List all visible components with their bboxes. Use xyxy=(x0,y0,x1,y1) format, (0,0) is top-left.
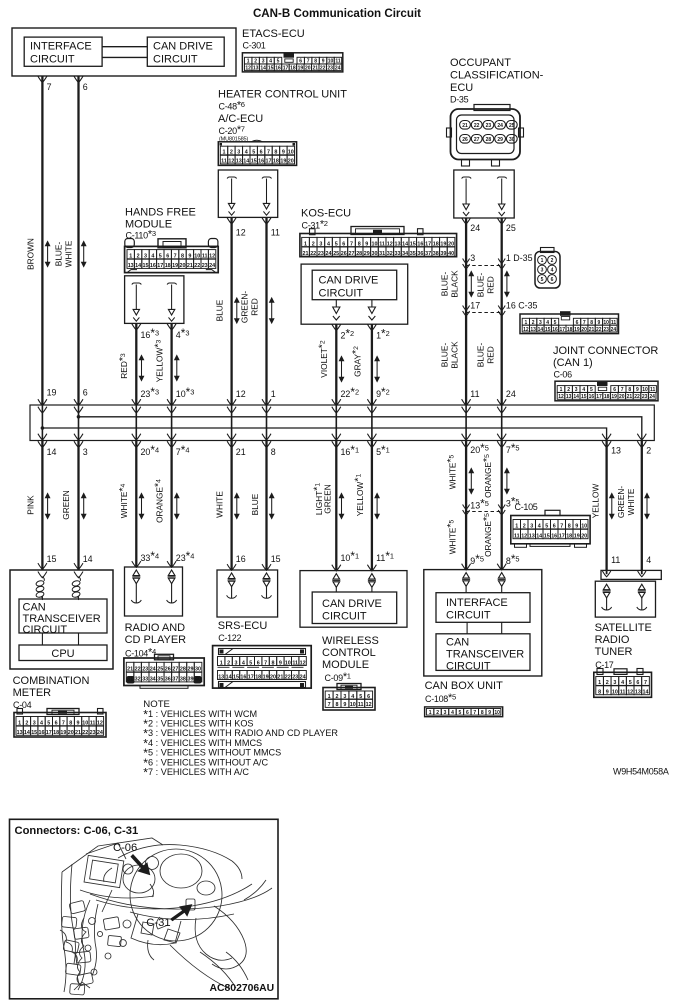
svg-text:20: 20 xyxy=(288,159,294,165)
arrow red xyxy=(139,356,143,381)
svg-text:12: 12 xyxy=(387,241,393,247)
svg-text:3: 3 xyxy=(319,241,322,247)
terminal KOS pin1 xyxy=(371,300,373,307)
svg-text:18: 18 xyxy=(255,674,261,680)
svg-text:13: 13 xyxy=(611,446,621,456)
svg-text:19: 19 xyxy=(440,241,446,247)
svg-text:16: 16 xyxy=(150,263,156,269)
svg-text:5: 5 xyxy=(249,660,252,666)
wire VIOLET kos-2 to bus xyxy=(335,324,337,405)
svg-text:14: 14 xyxy=(538,327,544,333)
terminal meter pin14 xyxy=(74,572,83,578)
svg-text:6: 6 xyxy=(55,721,58,727)
svg-text:5: 5 xyxy=(47,721,50,727)
svg-text:GREEN: GREEN xyxy=(61,490,71,520)
junction fork etacs pin6 xyxy=(74,76,83,82)
svg-text:28: 28 xyxy=(180,667,186,673)
arrow green-red xyxy=(270,298,274,323)
svg-text:5: 5 xyxy=(545,524,548,530)
svg-text:15: 15 xyxy=(31,730,37,736)
svg-text:18: 18 xyxy=(53,730,59,736)
svg-text:CAN BOX UNIT: CAN BOX UNIT xyxy=(425,680,504,692)
svg-text:22: 22 xyxy=(634,394,640,400)
wire YELLOW hfm-4 to bus xyxy=(170,324,172,405)
svg-text:24: 24 xyxy=(150,667,156,673)
wire GREEN-RED heater-11 to bus xyxy=(265,218,267,405)
svg-text:2: 2 xyxy=(25,721,28,727)
svg-text:13: 13 xyxy=(17,730,23,736)
svg-text:22: 22 xyxy=(596,327,602,333)
svg-text:24: 24 xyxy=(97,730,103,736)
terminal srs pin15 xyxy=(263,573,270,579)
svg-text:3: 3 xyxy=(470,253,475,263)
svg-text:19: 19 xyxy=(60,730,66,736)
svg-text:19: 19 xyxy=(280,159,286,165)
svg-text:CONTROL: CONTROL xyxy=(322,647,376,659)
arrow green-white xyxy=(645,494,649,519)
connector C-48 / C-20 xyxy=(218,142,296,166)
svg-text:2: 2 xyxy=(436,710,439,716)
svg-text:24: 24 xyxy=(209,263,215,269)
svg-text:6: 6 xyxy=(83,82,88,92)
wire BLUE-BLACK occupant-24 to bus xyxy=(465,218,467,405)
svg-text:35: 35 xyxy=(157,677,163,683)
wire meter transceiver to cpu links xyxy=(41,633,43,645)
svg-text:SRS-ECU: SRS-ECU xyxy=(218,620,268,632)
svg-text:4: 4 xyxy=(242,660,245,666)
CAN transceiver circuit block canbox xyxy=(436,634,530,671)
svg-text:29: 29 xyxy=(364,251,370,257)
svg-text:ECU: ECU xyxy=(450,82,473,94)
svg-text:4: 4 xyxy=(621,680,624,686)
CAN drive circuit block U-KOS xyxy=(312,270,397,300)
wire canbox interface-transceiver links xyxy=(466,622,468,634)
svg-text:CIRCUIT: CIRCUIT xyxy=(319,288,364,300)
svg-text:8: 8 xyxy=(598,690,601,696)
junction fork kos pin2 xyxy=(332,324,341,330)
terminal canbox pin9 xyxy=(463,573,470,579)
svg-text:26: 26 xyxy=(165,667,171,673)
svg-text:7: 7 xyxy=(47,82,52,92)
wire GRAY kos-1 to bus xyxy=(371,324,373,405)
svg-text:16: 16 xyxy=(236,554,246,564)
svg-text:8: 8 xyxy=(69,721,72,727)
svg-text:18: 18 xyxy=(433,241,439,247)
svg-text:22: 22 xyxy=(194,263,200,269)
svg-text:13: 13 xyxy=(529,534,535,540)
svg-text:CIRCUIT: CIRCUIT xyxy=(446,660,491,672)
arrow orange5 xyxy=(505,469,509,494)
svg-text:16: 16 xyxy=(258,159,264,165)
arrow yellow xyxy=(175,356,179,381)
svg-text:35: 35 xyxy=(410,251,416,257)
svg-text:17: 17 xyxy=(559,534,565,540)
svg-text:38: 38 xyxy=(433,251,439,257)
svg-text:6: 6 xyxy=(257,660,260,666)
terminal wcm pin11 xyxy=(369,574,376,580)
svg-text:5: 5 xyxy=(459,710,462,716)
wire WHITE bus to srs16 xyxy=(230,441,232,571)
svg-text:TRANSCEIVER: TRANSCEIVER xyxy=(23,613,101,625)
svg-text:4: 4 xyxy=(451,710,454,716)
connector C-108 xyxy=(425,707,503,717)
terminal radio pin33 xyxy=(133,570,140,576)
svg-text:BLUE-: BLUE- xyxy=(476,343,486,368)
svg-text:15: 15 xyxy=(143,263,149,269)
svg-text:29: 29 xyxy=(188,667,194,673)
CAN transceiver circuit block meter xyxy=(19,599,107,633)
svg-text:20: 20 xyxy=(68,730,74,736)
terminal sat pin4 xyxy=(639,584,646,590)
terminal fork sat4 xyxy=(641,570,643,574)
svg-text:CAN DRIVE: CAN DRIVE xyxy=(322,598,382,610)
bus crossing wire x=336.3 xyxy=(335,405,337,441)
svg-text:14: 14 xyxy=(402,241,408,247)
svg-text:7: 7 xyxy=(328,702,331,708)
svg-text:(CAN 1): (CAN 1) xyxy=(553,357,593,369)
svg-text:INTERFACE: INTERFACE xyxy=(446,597,508,609)
svg-text:10: 10 xyxy=(494,710,500,716)
svg-text:1 D-35: 1 D-35 xyxy=(506,253,533,263)
svg-text:11: 11 xyxy=(379,241,385,247)
svg-text:12: 12 xyxy=(558,394,564,400)
svg-text:1: 1 xyxy=(515,524,518,530)
svg-text:6: 6 xyxy=(553,524,556,530)
svg-text:20: 20 xyxy=(448,241,454,247)
svg-text:8: 8 xyxy=(274,150,277,156)
wire YELLOW bus to wcm11 xyxy=(371,441,373,571)
connector bracket satellite xyxy=(601,570,661,579)
CAN drive circuit block U-WCM xyxy=(312,592,397,624)
svg-text:18: 18 xyxy=(604,394,610,400)
svg-text:11: 11 xyxy=(514,534,520,540)
svg-text:ETACS-ECU: ETACS-ECU xyxy=(242,28,305,40)
svg-text:12: 12 xyxy=(236,228,246,238)
svg-text:9: 9 xyxy=(282,150,285,156)
svg-text:9: 9 xyxy=(279,660,282,666)
svg-text:1: 1 xyxy=(18,721,21,727)
svg-text:7: 7 xyxy=(644,680,647,686)
svg-text:12: 12 xyxy=(236,389,246,399)
svg-text:12: 12 xyxy=(97,721,103,727)
svg-text:HANDS FREE: HANDS FREE xyxy=(125,207,196,219)
svg-text:39: 39 xyxy=(440,251,446,257)
wire BLUE bus to srs15 xyxy=(265,441,267,571)
svg-text:PINK: PINK xyxy=(26,495,36,515)
terminal meter pin15 xyxy=(38,572,47,578)
connector D-35 inline icon xyxy=(541,248,555,253)
terminal HFM pin4 xyxy=(167,283,177,285)
ECU box RADIO AND CD PLAYER xyxy=(125,567,183,616)
svg-text:24: 24 xyxy=(506,389,516,399)
svg-text:9: 9 xyxy=(343,702,346,708)
svg-text:21: 21 xyxy=(127,667,133,673)
wire interface to can-drive link xyxy=(102,46,147,48)
svg-text:24: 24 xyxy=(335,65,341,71)
connector C-09 xyxy=(337,684,361,690)
svg-text:1: 1 xyxy=(129,254,132,260)
svg-text:C-301: C-301 xyxy=(243,41,266,51)
arrow lgreen xyxy=(339,494,343,519)
svg-text:10: 10 xyxy=(372,241,378,247)
svg-text:14: 14 xyxy=(643,690,649,696)
svg-text:25: 25 xyxy=(333,251,339,257)
svg-text:14: 14 xyxy=(24,730,30,736)
wire BROWN etacs-7 to bus xyxy=(41,76,43,405)
svg-text:25: 25 xyxy=(157,667,163,673)
svg-text:5: 5 xyxy=(252,150,255,156)
svg-text:BROWN: BROWN xyxy=(26,238,36,270)
svg-text:13: 13 xyxy=(635,690,641,696)
ECU box WIRELESS CONTROL MODULE xyxy=(300,571,407,628)
svg-text:6: 6 xyxy=(636,680,639,686)
svg-text:15: 15 xyxy=(233,674,239,680)
svg-text:11: 11 xyxy=(358,702,364,708)
svg-text:15: 15 xyxy=(545,327,551,333)
wire GREEN-WHITE bus to sat4 xyxy=(641,441,643,571)
svg-text:7: 7 xyxy=(62,721,65,727)
svg-text:CAN DRIVE: CAN DRIVE xyxy=(153,41,213,53)
svg-text:16: 16 xyxy=(39,730,45,736)
svg-text:9: 9 xyxy=(188,254,191,260)
svg-text:3: 3 xyxy=(235,660,238,666)
svg-text:5: 5 xyxy=(159,254,162,260)
svg-text:22: 22 xyxy=(320,65,326,71)
svg-text:1: 1 xyxy=(271,389,276,399)
svg-text:23: 23 xyxy=(642,394,648,400)
svg-text:3: 3 xyxy=(33,721,36,727)
svg-text:4: 4 xyxy=(351,694,354,700)
svg-text:RED: RED xyxy=(250,298,260,316)
connector C-122 xyxy=(213,646,312,689)
connector D-35 housing xyxy=(474,105,510,111)
svg-text:CAN: CAN xyxy=(23,602,46,614)
svg-text:GRAY*2: GRAY*2 xyxy=(350,346,362,377)
junction dot wire1 lower bus xyxy=(41,426,45,430)
svg-text:26: 26 xyxy=(341,251,347,257)
svg-text:2: 2 xyxy=(551,258,554,264)
svg-text:3: 3 xyxy=(613,680,616,686)
svg-text:WHITE*5: WHITE*5 xyxy=(445,454,457,489)
svg-text:17: 17 xyxy=(157,263,163,269)
svg-text:23: 23 xyxy=(142,667,148,673)
svg-text:17: 17 xyxy=(266,159,272,165)
svg-text:JOINT CONNECTOR: JOINT CONNECTOR xyxy=(553,345,658,357)
svg-text:20: 20 xyxy=(180,263,186,269)
svg-text:5: 5 xyxy=(541,277,544,283)
svg-text:2: 2 xyxy=(227,660,230,666)
svg-text:4: 4 xyxy=(327,241,330,247)
svg-text:CAN-B Communication Circuit: CAN-B Communication Circuit xyxy=(253,7,421,20)
svg-text:BLUE-: BLUE- xyxy=(440,272,450,297)
wire BLUE-RED occupant-25 to bus xyxy=(501,218,503,405)
svg-text:14: 14 xyxy=(47,447,57,457)
inline connector C-105 dashed link xyxy=(466,511,502,513)
svg-text:33: 33 xyxy=(395,251,401,257)
svg-text:9: 9 xyxy=(488,710,491,716)
CAN bus junction box xyxy=(30,405,654,441)
svg-text:17: 17 xyxy=(470,301,480,311)
arrow blue-white xyxy=(82,242,86,267)
svg-text:26: 26 xyxy=(462,137,468,143)
svg-text:4: 4 xyxy=(245,150,248,156)
svg-text:23: 23 xyxy=(327,65,333,71)
svg-text:9: 9 xyxy=(606,690,609,696)
svg-text:17: 17 xyxy=(596,394,602,400)
svg-text:C-105: C-105 xyxy=(515,502,538,512)
connector C-35 block xyxy=(520,314,619,334)
ECU box KOS internals xyxy=(301,264,408,324)
svg-text:14: 14 xyxy=(135,263,141,269)
svg-text:RADIO: RADIO xyxy=(595,634,630,646)
svg-text:C-06: C-06 xyxy=(113,842,137,854)
svg-text:12: 12 xyxy=(228,159,234,165)
svg-text:8: 8 xyxy=(181,254,184,260)
svg-text:BLUE: BLUE xyxy=(215,299,225,321)
svg-text:19: 19 xyxy=(298,65,304,71)
svg-text:10: 10 xyxy=(612,690,618,696)
svg-text:1: 1 xyxy=(328,694,331,700)
ECU box ETACS-ECU xyxy=(12,28,236,76)
svg-text:1: 1 xyxy=(541,258,544,264)
junction dot wire2 upper bus xyxy=(77,415,81,419)
svg-text:20: 20 xyxy=(581,327,587,333)
ECU box SRS-ECU xyxy=(217,570,278,617)
svg-text:32: 32 xyxy=(387,251,393,257)
svg-text:11: 11 xyxy=(90,721,96,727)
svg-text:9: 9 xyxy=(77,721,80,727)
svg-text:2: 2 xyxy=(230,150,233,156)
svg-text:7: 7 xyxy=(174,254,177,260)
connector C-31 xyxy=(310,229,316,235)
svg-text:2: 2 xyxy=(336,694,339,700)
svg-text:8: 8 xyxy=(358,241,361,247)
svg-text:16 C-35: 16 C-35 xyxy=(506,301,538,311)
svg-text:CIRCUIT: CIRCUIT xyxy=(153,54,198,66)
svg-text:WHITE: WHITE xyxy=(215,491,225,518)
svg-text:CAN: CAN xyxy=(446,637,469,649)
svg-text:4: 4 xyxy=(40,721,43,727)
terminal heater pin11 xyxy=(262,177,272,179)
svg-text:6: 6 xyxy=(166,254,169,260)
arrow brown xyxy=(46,242,50,267)
terminal sat pin11 xyxy=(603,584,610,590)
svg-text:10: 10 xyxy=(285,660,291,666)
svg-text:TUNER: TUNER xyxy=(595,646,633,658)
svg-text:22: 22 xyxy=(285,674,291,680)
svg-text:12: 12 xyxy=(521,534,527,540)
svg-text:WHITE*4: WHITE*4 xyxy=(117,483,129,518)
bus exit chevrons wire12 xyxy=(637,434,646,440)
svg-text:BLACK: BLACK xyxy=(450,341,460,369)
terminal srs pin16 xyxy=(228,573,235,579)
svg-text:27: 27 xyxy=(474,137,480,143)
svg-text:11: 11 xyxy=(470,389,479,399)
junction fork hfm pin16 xyxy=(132,324,141,330)
svg-text:11: 11 xyxy=(271,228,280,238)
svg-text:16: 16 xyxy=(240,674,246,680)
svg-text:22: 22 xyxy=(310,251,316,257)
svg-text:27: 27 xyxy=(349,251,355,257)
wire GREEN bus to meter14 xyxy=(77,441,79,571)
svg-text:16: 16 xyxy=(275,65,281,71)
svg-text:18: 18 xyxy=(273,159,279,165)
svg-text:CIRCUIT: CIRCUIT xyxy=(30,54,75,66)
svg-text:10: 10 xyxy=(82,721,88,727)
arrow white5 xyxy=(469,469,473,494)
terminal fork sat11 xyxy=(606,570,608,574)
svg-text:19: 19 xyxy=(574,534,580,540)
wire ORANGE bus to canbox xyxy=(501,441,503,570)
svg-text:15: 15 xyxy=(410,241,416,247)
svg-text:9: 9 xyxy=(365,241,368,247)
svg-text:6: 6 xyxy=(551,277,554,283)
svg-text:19: 19 xyxy=(47,388,57,398)
svg-text:3: 3 xyxy=(144,254,147,260)
svg-text:18: 18 xyxy=(567,327,573,333)
svg-text:BLUE-: BLUE- xyxy=(54,242,64,267)
wire LIGHT-GREEN bus to wcm10 xyxy=(335,441,337,571)
arrow violet xyxy=(339,357,343,382)
svg-text:1: 1 xyxy=(304,241,307,247)
interface circuit block U-ETACS xyxy=(24,37,102,66)
svg-text:24: 24 xyxy=(649,394,655,400)
svg-text:36: 36 xyxy=(165,677,171,683)
svg-text:2: 2 xyxy=(137,254,140,260)
svg-text:3: 3 xyxy=(237,150,240,156)
svg-text:D-35: D-35 xyxy=(450,95,469,105)
wire YELLOW bus to sat11 xyxy=(605,441,607,571)
svg-text:31: 31 xyxy=(127,677,133,683)
svg-text:27: 27 xyxy=(172,667,178,673)
svg-text:12: 12 xyxy=(366,702,372,708)
bus exit chevrons wire11 xyxy=(602,434,611,440)
svg-text:39: 39 xyxy=(188,677,194,683)
svg-text:AC802706AU: AC802706AU xyxy=(210,983,275,994)
arrow orange4 xyxy=(175,494,179,519)
svg-text:23: 23 xyxy=(603,327,609,333)
svg-text:15: 15 xyxy=(268,65,274,71)
svg-text:40: 40 xyxy=(195,677,201,683)
svg-text:W9H54M058A: W9H54M058A xyxy=(613,767,669,777)
terminal KOS pin2 xyxy=(335,300,337,307)
svg-text:7: 7 xyxy=(350,241,353,247)
svg-text:RADIO AND: RADIO AND xyxy=(125,622,186,634)
arrow white4 xyxy=(139,494,143,519)
svg-text:33: 33 xyxy=(142,677,148,683)
svg-text:C-31: C-31 xyxy=(146,917,170,929)
bus line CAN lower xyxy=(42,428,606,441)
svg-text:3: 3 xyxy=(530,524,533,530)
svg-text:21: 21 xyxy=(462,123,468,129)
svg-text:19: 19 xyxy=(172,263,178,269)
svg-text:YELLOW*3: YELLOW*3 xyxy=(152,340,164,383)
dashboard illustration xyxy=(60,838,272,995)
svg-text:1: 1 xyxy=(429,710,432,716)
svg-text:40: 40 xyxy=(448,251,454,257)
svg-text:23: 23 xyxy=(318,251,324,257)
svg-text:19: 19 xyxy=(574,327,580,333)
arrow pink xyxy=(46,494,50,519)
wire WHITE bus to canbox xyxy=(465,441,467,570)
svg-text:5: 5 xyxy=(359,694,362,700)
svg-text:10: 10 xyxy=(194,254,200,260)
svg-text:4: 4 xyxy=(151,254,154,260)
svg-text:VIOLET*2: VIOLET*2 xyxy=(317,340,329,378)
svg-text:C-104*4: C-104*4 xyxy=(125,646,156,658)
junction fork heater pin11 xyxy=(262,218,271,224)
terminal occupant pin24 xyxy=(462,177,472,179)
